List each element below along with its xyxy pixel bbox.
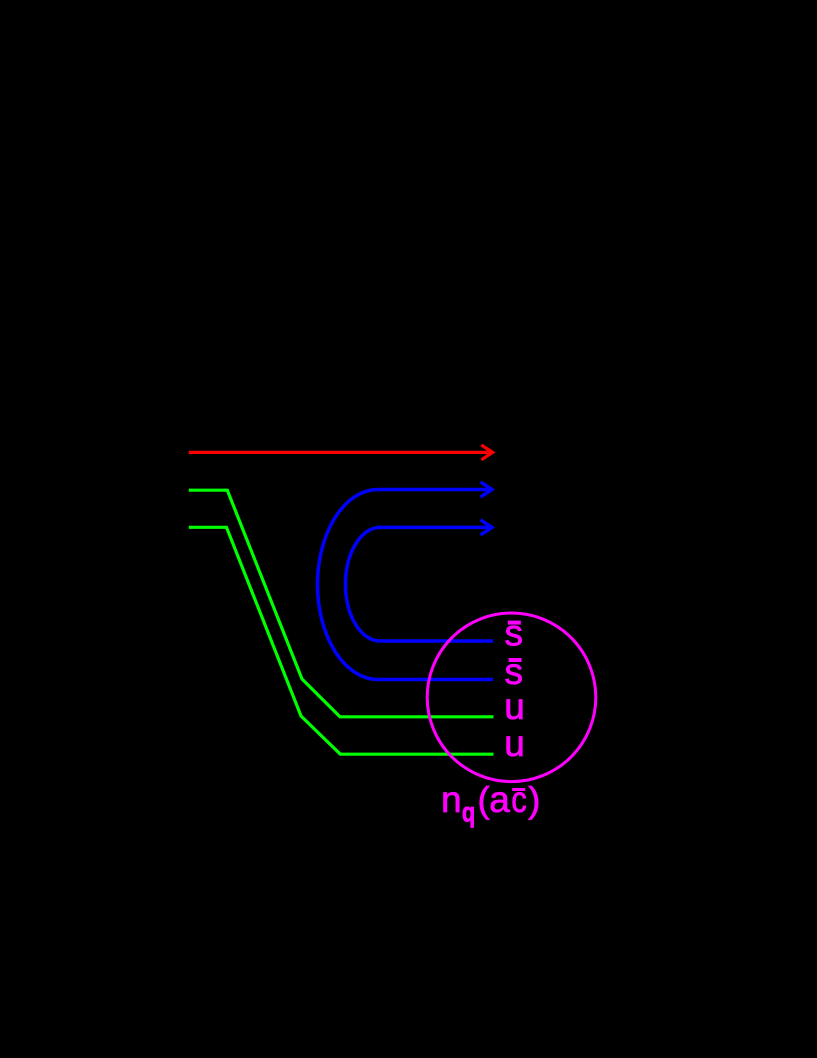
svg-text:): ) (528, 779, 540, 820)
svg-text:c: c (511, 780, 527, 821)
svg-text:q: q (462, 797, 475, 828)
blue antiquark line sbar-1 (outer U-turn with arrow) (317, 482, 493, 680)
svg-text:a: a (489, 779, 510, 820)
label sbar quark 2 (505, 651, 524, 692)
red arrow (Pomeron/exchange line) (189, 445, 493, 460)
svg-text:u: u (504, 723, 525, 764)
svg-text:(: ( (478, 779, 490, 820)
label u quark 1 (504, 686, 525, 727)
label n_q(ac-bar) below blob (441, 779, 540, 828)
label sbar quark 1 (505, 613, 524, 654)
label u quark 2 (504, 723, 525, 764)
blue antiquark line sbar-2 (inner U-turn with arrow) (346, 520, 494, 641)
magenta circle (n_q blob) (427, 613, 596, 782)
svg-text:u: u (504, 686, 525, 727)
svg-text:s: s (505, 613, 524, 654)
svg-text:n: n (441, 779, 462, 820)
green quark line u-2 (lower polyline) (189, 527, 494, 754)
green quark line u-1 (upper polyline) (189, 490, 494, 717)
